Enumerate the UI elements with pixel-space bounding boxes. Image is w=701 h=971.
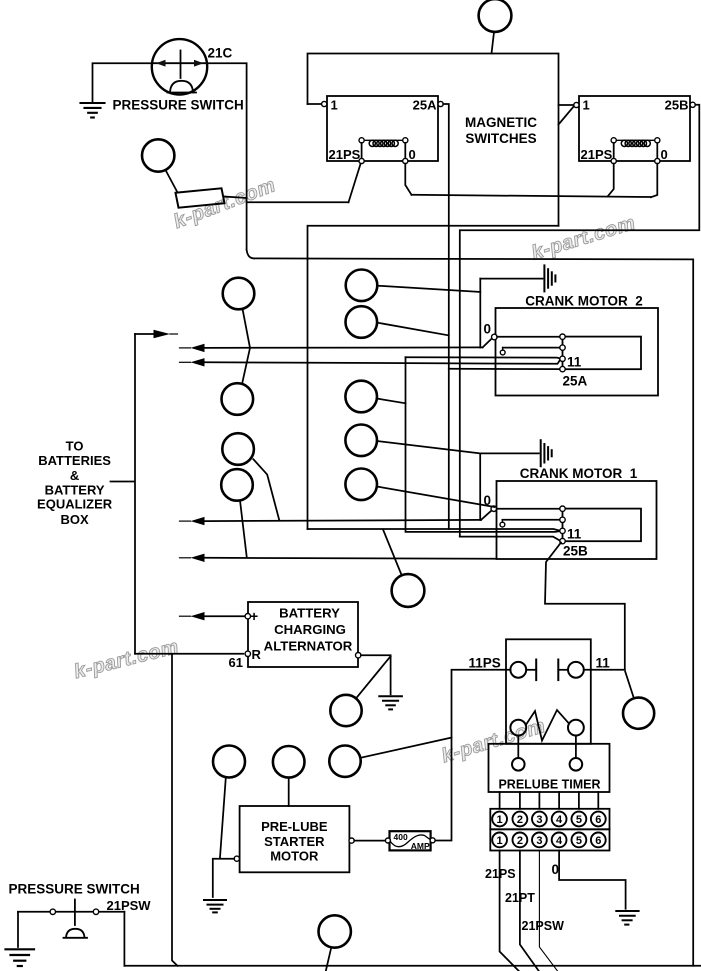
svg-text:6: 6 [595, 835, 601, 847]
pivot crank1 [500, 522, 505, 527]
wire node13 to 11PS wire [360, 738, 451, 758]
watermark 4 [439, 715, 548, 767]
wire 25B from crank1 t4 down [545, 543, 625, 670]
wire coilB 0 down [651, 164, 658, 198]
svg-text:BATTERY: BATTERY [45, 482, 105, 497]
wire switch left to ground [17, 912, 19, 947]
magnetic switch A box [327, 96, 438, 161]
svg-text:3: 3 [536, 835, 542, 847]
svg-text:MAGNETIC: MAGNETIC [465, 115, 537, 130]
wire motor right to fuse [354, 840, 387, 842]
svg-text:2: 2 [517, 814, 523, 826]
svg-text:PRESSURE SWITCH: PRESSURE SWITCH [9, 882, 140, 897]
wire elbow to long line [247, 250, 254, 259]
wire M3 to 11 bus [377, 399, 406, 404]
connector circle L4 [221, 469, 253, 501]
wire [492, 32, 495, 54]
watermark 2 [529, 212, 638, 264]
svg-text:EQUALIZER: EQUALIZER [37, 496, 113, 511]
wire text pointer [111, 481, 134, 483]
wire alternator to node circle [356, 656, 391, 698]
svg-text:25A: 25A [413, 98, 437, 113]
svg-text:0: 0 [484, 322, 492, 337]
svg-text:+: + [250, 608, 258, 624]
wire top rail [308, 54, 559, 226]
wire 25A to crank2 t4 [449, 368, 560, 370]
wire 25A down [443, 104, 449, 529]
svg-text:61: 61 [229, 655, 243, 670]
timer ticks [500, 792, 599, 809]
bottom pressure switch [9, 882, 152, 914]
node circle 13 [329, 746, 360, 777]
wire long right edge [254, 258, 693, 965]
wire box A bottom to crank1 t3 [308, 529, 561, 531]
terminal circle sw2-1 [574, 102, 579, 107]
node circle [142, 139, 174, 171]
node circle 15 [213, 746, 245, 778]
wire line to crank2 lever [205, 346, 483, 349]
tall vertical 11 bus [406, 357, 561, 532]
svg-text:21PT: 21PT [505, 891, 535, 905]
battery charging alternator box [248, 602, 358, 667]
svg-text:CRANK MOTOR 2: CRANK MOTOR 2 [525, 294, 643, 309]
svg-text:11PS: 11PS [469, 656, 501, 671]
wire L4 down [240, 500, 247, 556]
svg-text:BATTERIES: BATTERIES [38, 453, 111, 468]
terminal circle sw1-25A [438, 101, 443, 106]
wire coilA 21PS down [349, 164, 361, 203]
wire 21PS bus left [247, 201, 349, 203]
connector block [176, 188, 225, 207]
wire 25B down [460, 105, 700, 537]
ground crank2 [480, 278, 542, 280]
svg-text:PRELUBE TIMER: PRELUBE TIMER [498, 778, 600, 792]
pivot crank2 [500, 350, 505, 355]
pressure switch 21C [152, 39, 207, 94]
svg-text:2: 2 [517, 835, 523, 847]
ground motor [204, 900, 226, 912]
ground crank1 [480, 452, 539, 454]
wire crank2 common [479, 279, 481, 348]
svg-text:25A: 25A [563, 374, 588, 389]
svg-text:5: 5 [576, 814, 582, 826]
CRANK MOTOR 1 [520, 466, 638, 481]
svg-text:BATTERY: BATTERY [279, 606, 340, 621]
svg-text:21PS: 21PS [581, 147, 613, 162]
wire 11 right [584, 669, 625, 671]
wire box A to node circle [383, 530, 402, 576]
node circle 14 [273, 746, 305, 778]
svg-text:11: 11 [567, 355, 582, 370]
terminal 0 crank2 [492, 334, 498, 340]
prelube timer box [489, 744, 610, 792]
wire strip t2 down [520, 851, 539, 971]
terminal circle sw2-25B [690, 102, 695, 107]
CRANK MOTOR 2 [525, 294, 643, 309]
connector circle M3 [345, 381, 377, 413]
wire node17 down [326, 947, 332, 971]
wire line to crank1 lever [205, 520, 481, 521]
svg-text:BOX: BOX [61, 512, 90, 527]
wire 11 bus top to crank2 t3 [406, 357, 561, 359]
wire coilB 21PS down [608, 164, 614, 197]
wire strip t3 down [539, 851, 557, 971]
svg-text:21PS: 21PS [329, 147, 361, 162]
svg-text:4: 4 [556, 835, 563, 847]
svg-text:21C: 21C [208, 46, 233, 61]
relay zigzag [526, 710, 569, 741]
wire coilA 0 down [405, 164, 411, 195]
wires relay to timer [517, 736, 519, 759]
svg-text:400: 400 [394, 832, 408, 842]
wire 11PS left and down to fuse [435, 670, 510, 841]
wire M2 to 25A wire [377, 323, 449, 336]
wire alternator plus [205, 615, 246, 617]
magnetic switch B box [579, 96, 690, 161]
wire 0 to t1 [497, 508, 560, 510]
node circle alt [330, 695, 361, 726]
relay upper contacts [510, 662, 526, 678]
bottom bus [124, 965, 701, 967]
wire 11 to node circle [625, 672, 634, 699]
relay lower contacts [510, 720, 526, 736]
pre-lube starter motor box [240, 806, 350, 872]
svg-text:1: 1 [497, 814, 503, 826]
ground alternator [379, 696, 402, 709]
battery bus [134, 334, 136, 654]
wire switch to ground [93, 63, 152, 101]
battery bus arrow stub [135, 333, 156, 335]
svg-text:&: & [70, 468, 79, 483]
connector circle M2 [346, 306, 378, 338]
svg-text:4: 4 [556, 814, 563, 826]
svg-text:AMP: AMP [411, 841, 430, 851]
wire 0 to t1 [497, 336, 560, 338]
wire M5 to crank1 [377, 487, 495, 508]
svg-text:11: 11 [567, 527, 582, 542]
svg-text:PRE-LUBE: PRE-LUBE [261, 819, 328, 834]
wire line crank1 box bottom [205, 558, 497, 559]
wire coil bus [412, 195, 651, 197]
svg-text:SWITCHES: SWITCHES [465, 131, 536, 146]
svg-text:STARTER: STARTER [264, 834, 325, 849]
terminal 0 crank1 [491, 506, 497, 512]
crank2 inner box [563, 337, 642, 370]
wire diagonal to switch2 terminal 1 [559, 106, 575, 125]
svg-text:CRANK MOTOR 1: CRANK MOTOR 1 [520, 466, 638, 481]
MAGNETIC SWITCHES label [465, 115, 537, 146]
connector circle M4 [345, 425, 377, 457]
svg-text:R: R [252, 647, 262, 662]
svg-text:3: 3 [536, 814, 542, 826]
wire M4 to crank1 ground stem [377, 441, 480, 453]
wire rail to switch1 terminal [308, 103, 322, 105]
wire to connector [166, 170, 178, 192]
svg-text:21PSW: 21PSW [107, 898, 152, 913]
wire M1 to crank2 ground stem [377, 286, 480, 292]
wire strip t4 to ground [559, 851, 626, 909]
crank1 inner box [563, 509, 642, 542]
connector circle M1 [346, 270, 378, 302]
ground top left [81, 103, 105, 118]
wire alternator R [135, 653, 243, 655]
terminal strip row 2 [490, 829, 609, 850]
connector circle L3 [222, 433, 254, 465]
fuse 400 AMP [390, 831, 431, 850]
wire strip t1 down [500, 851, 519, 971]
svg-text:1: 1 [583, 98, 590, 113]
svg-text:ALTERNATOR: ALTERNATOR [264, 639, 353, 654]
watermark 3 [72, 636, 181, 683]
wire connector to junction [224, 197, 247, 199]
watermark 1 [171, 174, 279, 233]
wire switch right down [123, 912, 125, 966]
svg-text:5: 5 [576, 835, 582, 847]
node circle top [479, 0, 512, 32]
lever crank1 [481, 511, 492, 520]
ground bottom left [6, 949, 35, 966]
svg-text:CHARGING: CHARGING [274, 622, 346, 637]
svg-text:21PSW: 21PSW [522, 919, 565, 933]
svg-text:0: 0 [409, 147, 416, 162]
ground strip [616, 911, 638, 925]
wire node15 to motor wire [220, 778, 226, 858]
svg-text:11: 11 [596, 656, 611, 671]
wire R to bottom bus [172, 654, 178, 966]
svg-text:0: 0 [552, 862, 560, 877]
coil A [362, 139, 406, 141]
svg-text:1: 1 [497, 835, 503, 847]
coil B [614, 139, 658, 141]
wire alternator right to ground [361, 655, 391, 694]
node circle 17 [319, 915, 351, 947]
wire motor left to ground [213, 859, 234, 897]
wire L1 to L2 [242, 309, 250, 384]
lever crank2 [483, 338, 493, 347]
terminal circle sw1-1 [322, 101, 327, 106]
wire line to crank2 t3 [205, 360, 560, 364]
svg-text:1: 1 [331, 98, 338, 113]
connector circle M5 [345, 469, 377, 501]
wire 25B to crank1 t4 [460, 537, 561, 541]
connector circle L2 [222, 383, 254, 415]
svg-text:6: 6 [595, 814, 601, 826]
wire crank1 common [479, 453, 481, 520]
TO BATTERIES text [37, 439, 113, 527]
svg-text:0: 0 [661, 147, 668, 162]
wire 21C right [207, 63, 246, 249]
node circle 11 [623, 698, 654, 729]
wire rail to switch2 terminal [559, 104, 575, 106]
wire node14 to motor top [288, 778, 290, 806]
wire L3 down [253, 459, 279, 520]
svg-text:21PS: 21PS [485, 867, 516, 881]
svg-text:25B: 25B [665, 98, 689, 113]
relay box [506, 639, 591, 744]
svg-text:PRESSURE SWITCH: PRESSURE SWITCH [113, 98, 244, 113]
box A [308, 226, 559, 529]
terminal strip row 1 [490, 809, 609, 830]
svg-text:MOTOR: MOTOR [270, 849, 319, 864]
svg-text:TO: TO [66, 439, 84, 454]
svg-text:25B: 25B [563, 544, 588, 559]
connector circle L1 [223, 278, 255, 310]
node circle mid [392, 574, 425, 607]
